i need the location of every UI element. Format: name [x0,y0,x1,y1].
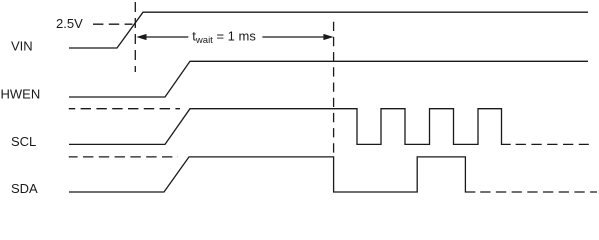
t_wait left arrow line [139,36,188,38]
HWEN waveform [69,61,588,97]
svg-text:HWEN: HWEN [1,87,41,102]
svg-text:VIN: VIN [11,39,33,54]
SCL low-level trailing dashed line [516,143,589,145]
svg-text:2.5V: 2.5V [56,16,83,31]
2.5V threshold dashed line [93,23,133,25]
t_wait right arrowhead [323,34,333,40]
svg-text:SCL: SCL [11,134,36,149]
t_wait right arrow line [262,36,330,38]
t_wait left arrowhead [136,34,146,40]
SDA waveform with start condition and data pulse [69,157,475,192]
SCL high-level dashed segment (pre-release) [69,108,180,110]
SCL waveform with clock pulses [69,109,511,145]
vertical dashed line at end of t_wait [333,22,335,156]
VIN waveform [69,12,588,48]
vertical dashed line at VIN 2.5V crossing [134,2,136,72]
SDA high-level dashed segment (pre-release) [69,156,178,158]
svg-text:SDA: SDA [11,181,38,196]
SDA low-level trailing dashed line [480,191,597,193]
